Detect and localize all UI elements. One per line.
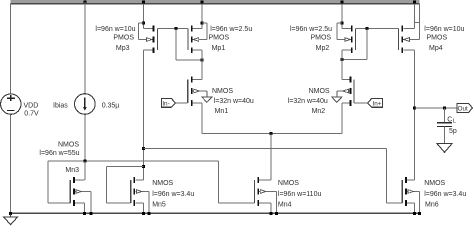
wire Mn5 gate tie bbox=[107, 165, 144, 167]
svg-text:PMOS: PMOS bbox=[427, 35, 448, 42]
wire Mn2 bulk arrow bbox=[336, 91, 338, 97]
wire Mp4 source to rail bbox=[413, 4, 415, 29]
wire Mp4 drain to Mn6 drain bbox=[413, 50, 415, 180]
port In- bbox=[161, 99, 175, 108]
svg-text:Mp3: Mp3 bbox=[116, 45, 130, 52]
node rail-Mp3 bbox=[142, 1, 145, 4]
svg-text:PMOS: PMOS bbox=[310, 35, 331, 42]
wire Mn3 gate riser bbox=[47, 161, 49, 203]
svg-text:l=96n w=3.4u: l=96n w=3.4u bbox=[152, 191, 194, 198]
VDD power rail bbox=[11, 0, 420, 3]
node Mn5 source-gnd bbox=[142, 212, 145, 215]
wire right cascode node bbox=[342, 59, 367, 61]
svg-text:VDD: VDD bbox=[24, 103, 39, 110]
svg-text:NMOS: NMOS bbox=[278, 180, 299, 187]
node Mn5 bulk-gnd bbox=[148, 212, 151, 215]
svg-text:PMOS: PMOS bbox=[113, 35, 134, 42]
wire Mp2 drain to Mn2 drain bbox=[341, 50, 343, 79]
svg-text:5p: 5p bbox=[449, 128, 457, 135]
node rail-Mp2 bbox=[341, 1, 344, 4]
current source Ibias 0.35u bbox=[75, 94, 96, 115]
wire Mn1 bulk arrow bbox=[206, 91, 208, 97]
wire gate riser right bbox=[366, 28, 368, 59]
svg-text:Mn1: Mn1 bbox=[215, 108, 229, 115]
wire Mn4 gate riser bbox=[217, 161, 219, 203]
node Mp1 source-bulk junction bbox=[200, 22, 203, 25]
svg-text:PMOS: PMOS bbox=[209, 35, 230, 42]
wire Mp3 bulk tie bbox=[138, 23, 140, 40]
node Mn6 bulk-gnd rail end bbox=[418, 212, 421, 215]
node Mp2 source-bulk junction bbox=[341, 22, 344, 25]
capacitor CL 5p bbox=[437, 122, 452, 124]
wire Mp1 source to rail bbox=[201, 4, 203, 29]
svg-text:Mn2: Mn2 bbox=[312, 108, 326, 115]
wire Mp1 bulk tie bbox=[206, 23, 208, 40]
ground symbol left bbox=[10, 213, 12, 217]
wire Mp2 source to rail bbox=[341, 4, 343, 29]
node rail-Mp4 bbox=[413, 1, 416, 4]
node Mp gate right bbox=[365, 27, 368, 30]
ground rail bbox=[11, 212, 420, 214]
transistor Mn4 NMOS bbox=[257, 177, 259, 183]
svg-text:0.7V: 0.7V bbox=[24, 110, 39, 117]
svg-text:l=96n w=2.5u: l=96n w=2.5u bbox=[210, 26, 252, 33]
port Out bbox=[457, 103, 473, 112]
node Mn4 bulk-gnd bbox=[275, 212, 278, 215]
wire tail bbox=[202, 132, 342, 134]
svg-text:NMOS: NMOS bbox=[424, 180, 445, 187]
ground symbol CL bbox=[437, 144, 452, 153]
wire Mn5 gate lead bbox=[107, 202, 131, 204]
node Mp1 drain bbox=[200, 59, 203, 62]
transistor Mp2 PMOS bbox=[351, 26, 353, 32]
wire Mn2 source down bbox=[341, 103, 343, 133]
svg-text:l=96n w=2.5u: l=96n w=2.5u bbox=[290, 26, 332, 33]
node tail bbox=[269, 132, 272, 135]
node Ibias-Mn3 drain bbox=[83, 159, 86, 162]
wire rail to Ibias top bbox=[84, 2, 86, 94]
svg-text:NMOS: NMOS bbox=[212, 88, 233, 95]
svg-text:Ibias: Ibias bbox=[53, 103, 68, 110]
svg-text:Out: Out bbox=[458, 105, 468, 112]
node Mp3 source-bulk junction bbox=[142, 22, 145, 25]
svg-text:Mn5: Mn5 bbox=[152, 201, 166, 208]
voltage source V1 VDD 0.7V bbox=[1, 94, 21, 114]
wire Ibias bottom to bias node bbox=[84, 114, 86, 161]
wire Mp3 source to rail bbox=[143, 4, 145, 29]
transistor Mn6 NMOS bbox=[405, 177, 407, 183]
svg-text:l=96n w=10u: l=96n w=10u bbox=[95, 26, 135, 33]
node Mn3 bulk-gnd bbox=[89, 212, 92, 215]
port In+ bbox=[368, 99, 383, 108]
wire Mp4 bulk to rail end bbox=[419, 4, 421, 40]
wire Mp2 bulk tie bbox=[336, 23, 338, 40]
node Mp2 drain bbox=[341, 58, 344, 61]
svg-text:NMOS: NMOS bbox=[309, 88, 330, 95]
svg-text:0.35µ: 0.35µ bbox=[102, 103, 120, 110]
svg-text:l=96n w=3.4u: l=96n w=3.4u bbox=[424, 191, 466, 198]
svg-text:Mp4: Mp4 bbox=[429, 45, 443, 52]
svg-text:Mp2: Mp2 bbox=[316, 45, 330, 52]
wire Mn6 gate wire bbox=[144, 147, 387, 149]
svg-text:In-: In- bbox=[162, 100, 169, 107]
node rail-Mp1 bbox=[200, 1, 203, 4]
wire Mp3-Mp1 gates bbox=[158, 27, 189, 29]
wire gate riser left bbox=[175, 28, 177, 60]
wire output bbox=[414, 107, 457, 109]
ground node at V1 bbox=[9, 212, 12, 215]
wire Ibias node to Mn3 drain bbox=[84, 161, 86, 180]
transistor Mp3 PMOS bbox=[153, 26, 155, 32]
transistor Mn2 NMOS bbox=[349, 77, 351, 83]
svg-text:Mn4: Mn4 bbox=[278, 201, 292, 208]
node Mp gate left bbox=[174, 27, 177, 30]
svg-text:NMOS: NMOS bbox=[58, 142, 79, 149]
transistor Mn3 NMOS bbox=[73, 177, 75, 183]
svg-text:NMOS: NMOS bbox=[152, 180, 173, 187]
wire CL top bbox=[444, 108, 446, 123]
svg-text:l=32n w=40u: l=32n w=40u bbox=[214, 98, 254, 105]
node Mn6 source-gnd bbox=[413, 212, 416, 215]
transistor Mn1 NMOS bbox=[191, 77, 193, 83]
node Mn5 gate tie bbox=[142, 165, 145, 168]
wire VDD rail to V1 top bbox=[10, 4, 12, 94]
svg-text:Mn6: Mn6 bbox=[425, 201, 439, 208]
node rail-Ibias bbox=[83, 1, 86, 4]
wire Mn1 source down bbox=[201, 103, 203, 133]
transistor Mp4 PMOS bbox=[401, 26, 403, 32]
transistor Mp1 PMOS bbox=[191, 26, 193, 32]
wire Mn5 gate riser bbox=[106, 166, 108, 203]
wire left cascode node bbox=[176, 59, 202, 61]
node output bbox=[413, 106, 416, 109]
svg-text:l=32n w=40u: l=32n w=40u bbox=[288, 98, 328, 105]
svg-text:L: L bbox=[453, 119, 457, 125]
svg-text:l=96n w=10u: l=96n w=10u bbox=[424, 26, 464, 33]
node CL tap bbox=[443, 106, 446, 109]
wire Mn3 gate lead bbox=[48, 202, 71, 204]
svg-text:C: C bbox=[447, 116, 452, 123]
wire In- to Mn1 gate bbox=[175, 102, 187, 104]
wire Mp2-Mp4 gates bbox=[356, 27, 399, 29]
wire CL bottom bbox=[444, 127, 446, 144]
wire Mn4 gate lead bbox=[218, 202, 254, 204]
svg-text:In+: In+ bbox=[373, 100, 382, 107]
wire bias rail bbox=[48, 160, 219, 162]
svg-text:Mp1: Mp1 bbox=[212, 45, 226, 52]
svg-text:Mn3: Mn3 bbox=[65, 167, 79, 174]
svg-text:l=96n w=110u: l=96n w=110u bbox=[278, 191, 322, 198]
svg-text:l=96n w=55u: l=96n w=55u bbox=[39, 150, 79, 157]
wire tail to Mn4 drain bbox=[270, 133, 272, 180]
node Mn4 source-gnd bbox=[269, 212, 272, 215]
node first-stage tap bbox=[142, 147, 145, 150]
wire Mp3 drain chain bbox=[143, 50, 145, 180]
wire Mn6 gate lead bbox=[387, 202, 403, 204]
wire V1 bottom to ground bbox=[10, 114, 12, 213]
wire Mn2 gate to In+ bbox=[354, 102, 368, 104]
node Mn3 source-gnd bbox=[83, 212, 86, 215]
wire Mn6 gate riser bbox=[386, 148, 388, 203]
wire Mp1 drain to Mn1 drain bbox=[201, 50, 203, 79]
transistor Mn5 NMOS bbox=[133, 177, 135, 183]
